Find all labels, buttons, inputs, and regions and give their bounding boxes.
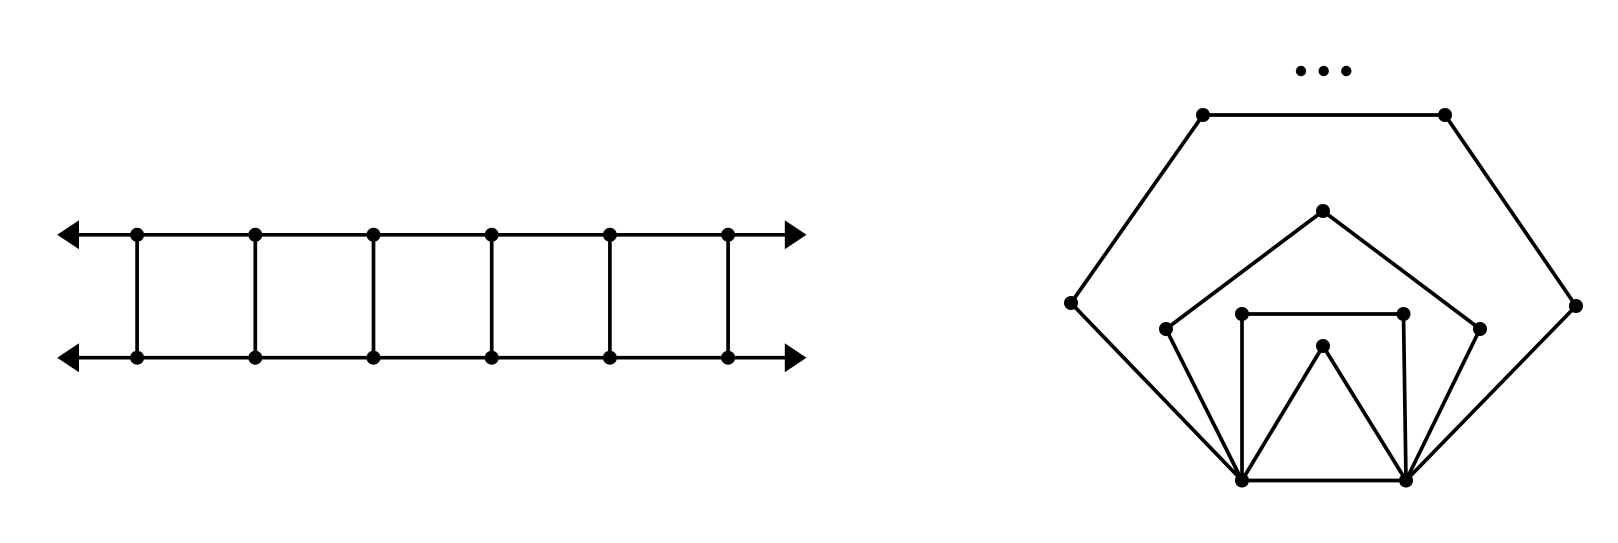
wire shared bottom edge [1242,479,1406,483]
wire hexagon upper-left edge [1071,115,1203,303]
wire pentagon lower-right edge [1406,329,1480,481]
wire square top edge [1242,312,1404,316]
wire rung 2 [253,235,257,358]
node pentagon right [1473,322,1487,336]
ellipsis dot 1 [1296,66,1306,76]
node ladder bottom 2 [248,351,262,365]
node ladder bottom 1 [130,351,144,365]
node hexagon top-right [1438,108,1452,122]
node ladder top 4 [485,228,499,242]
arrow bottom-left [57,343,79,372]
node pentagon left [1159,322,1173,336]
wire pentagon lower-left edge [1166,329,1242,481]
wire square right edge [1404,314,1407,481]
node ladder top 2 [248,228,262,242]
wire rung 3 [372,235,376,358]
wire square left edge [1240,314,1244,481]
arrow bottom-right [785,343,807,372]
node hexagon top-left [1196,108,1210,122]
node triangle apex [1316,339,1330,353]
wire hexagon lower-right edge [1406,306,1576,481]
node square top-left [1235,307,1249,321]
arrow top-left [57,220,79,249]
wire pentagon upper-right edge [1323,211,1480,329]
node ladder bottom 3 [367,351,381,365]
wire top rail [70,233,795,237]
ellipsis dot 2 [1319,66,1329,76]
wire hexagon top edge [1203,113,1445,117]
node ladder top 3 [367,228,381,242]
node square top-right [1397,307,1411,321]
node ladder top 1 [130,228,144,242]
node ladder bottom 5 [603,351,617,365]
wire bottom rail [70,356,795,360]
wire pentagon upper-left edge [1166,211,1323,329]
wire rung 4 [490,235,494,358]
node hexagon right [1569,299,1583,313]
node ladder bottom 6 [721,351,735,365]
node ladder top 6 [721,228,735,242]
node ladder top 5 [603,228,617,242]
node pentagon apex [1316,204,1330,218]
wire triangle right edge [1323,346,1406,481]
ellipsis dot 3 [1341,66,1351,76]
node bottom-left shared [1235,474,1249,488]
wire rung 6 [726,235,730,358]
wire hexagon upper-right edge [1445,115,1576,306]
wire rung 5 [608,235,612,358]
arrow top-right [785,220,807,249]
node hexagon left [1064,296,1078,310]
node bottom-right shared [1399,474,1413,488]
wire hexagon lower-left edge [1071,303,1242,481]
node ladder bottom 4 [485,351,499,365]
wire triangle left edge [1242,346,1323,481]
wire rung 1 [135,235,139,358]
